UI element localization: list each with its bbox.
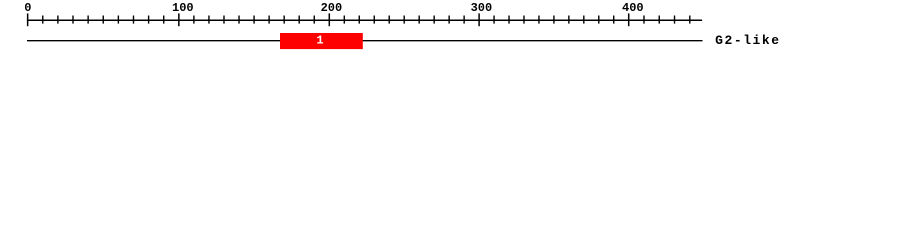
ruler minor tick 120 <box>208 16 210 24</box>
ruler minor tick 90 <box>163 16 165 24</box>
ruler minor tick 430 <box>674 16 676 24</box>
domain box 1 (red) <box>280 33 363 49</box>
ruler minor tick 40 <box>87 16 89 24</box>
ruler minor tick 210 <box>343 16 345 24</box>
ruler minor tick 320 <box>508 16 510 24</box>
ruler minor tick 220 <box>358 16 360 24</box>
ruler axis line <box>27 19 702 21</box>
ruler minor tick 340 <box>538 16 540 24</box>
ruler major tick 300 <box>478 13 480 26</box>
ruler minor tick 260 <box>418 16 420 24</box>
svg-text:200: 200 <box>321 1 343 15</box>
svg-text:400: 400 <box>622 1 644 15</box>
ruler minor tick 240 <box>388 16 390 24</box>
ruler minor tick 20 <box>57 16 59 24</box>
ruler minor tick 280 <box>448 16 450 24</box>
ruler minor tick 330 <box>523 16 525 24</box>
ruler minor tick 50 <box>102 16 104 24</box>
ruler minor tick 350 <box>553 16 555 24</box>
ruler minor tick 410 <box>643 16 645 24</box>
ruler minor tick 440 <box>689 16 691 24</box>
ruler minor tick 290 <box>463 16 465 24</box>
ruler minor tick 270 <box>433 16 435 24</box>
ruler minor tick 10 <box>42 16 44 24</box>
ruler minor tick 110 <box>193 16 195 24</box>
ruler minor tick 380 <box>598 16 600 24</box>
ruler minor tick 60 <box>117 16 119 24</box>
ruler minor tick 80 <box>148 16 150 24</box>
svg-text:0: 0 <box>24 1 31 15</box>
ruler minor tick 130 <box>223 16 225 24</box>
ruler minor tick 370 <box>583 16 585 24</box>
ruler minor tick 310 <box>493 16 495 24</box>
ruler minor tick 360 <box>568 16 570 24</box>
ruler minor tick 160 <box>268 16 270 24</box>
svg-text:300: 300 <box>471 1 493 15</box>
ruler minor tick 70 <box>132 16 134 24</box>
ruler minor tick 250 <box>403 16 405 24</box>
ruler minor tick 420 <box>658 16 660 24</box>
ruler minor tick 170 <box>283 16 285 24</box>
svg-text:G2-like: G2-like <box>715 33 779 48</box>
ruler minor tick 30 <box>72 16 74 24</box>
ruler minor tick 180 <box>298 16 300 24</box>
ruler minor tick 230 <box>373 16 375 24</box>
svg-text:1: 1 <box>316 34 323 48</box>
svg-text:100: 100 <box>172 1 194 15</box>
ruler major tick 100 <box>178 13 180 26</box>
ruler minor tick 140 <box>238 16 240 24</box>
ruler major tick 200 <box>328 13 330 26</box>
protein backbone line <box>27 40 703 42</box>
ruler major tick 400 <box>628 13 630 26</box>
ruler minor tick 190 <box>313 16 315 24</box>
ruler minor tick 150 <box>253 16 255 24</box>
ruler minor tick 390 <box>613 16 615 24</box>
ruler major tick 0 <box>27 13 29 26</box>
